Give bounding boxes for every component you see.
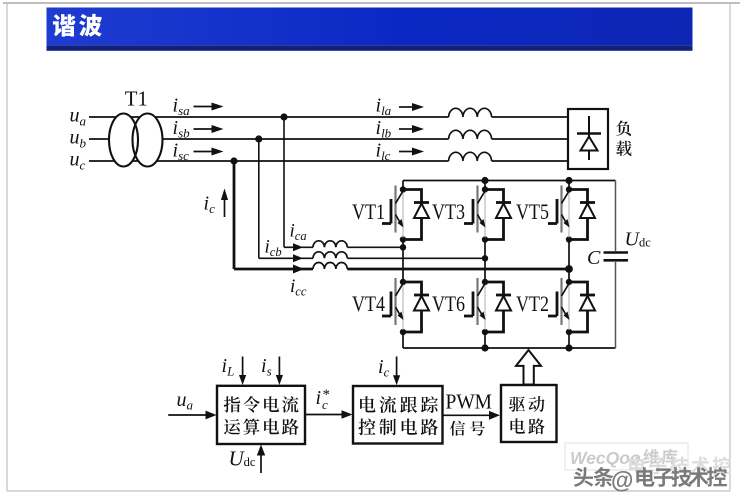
svg-text:@: @	[611, 467, 633, 493]
svg-text:VT4: VT4	[352, 291, 385, 316]
svg-text:VT5: VT5	[516, 199, 549, 224]
svg-text:i: i	[316, 387, 322, 409]
svg-text:T1: T1	[125, 87, 148, 111]
svg-text:C: C	[587, 247, 601, 269]
svg-text:VT1: VT1	[352, 199, 385, 224]
svg-text:VT2: VT2	[516, 291, 549, 316]
svg-text:VT6: VT6	[432, 291, 465, 316]
svg-text:VT3: VT3	[432, 199, 465, 224]
svg-text:PWM: PWM	[446, 389, 493, 413]
svg-text:*: *	[323, 387, 331, 403]
